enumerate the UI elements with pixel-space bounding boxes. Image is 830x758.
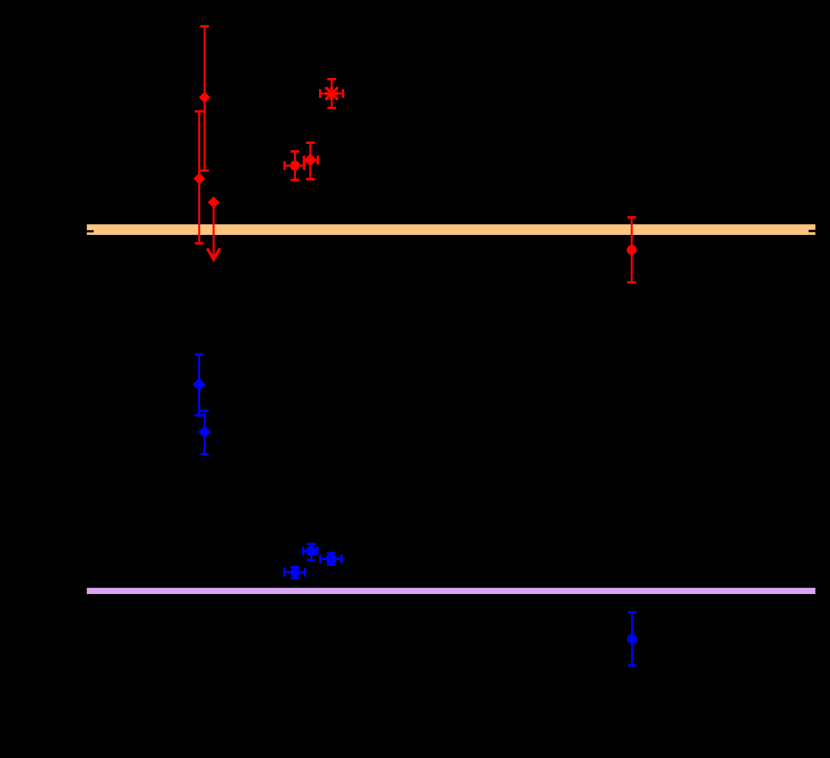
blue cluster circle point left errorbars — [284, 567, 305, 578]
blue right circle point errorbar — [628, 612, 637, 665]
red diamond marker of pair — [304, 154, 317, 167]
blue cluster circle marker left — [290, 568, 300, 578]
red upper-limit arrow — [207, 202, 220, 259]
blue cluster circle marker top — [306, 546, 316, 556]
red errorbar B vertical line — [195, 111, 204, 243]
blue right circle marker — [627, 634, 637, 644]
red right circle marker — [627, 245, 637, 255]
blue cluster circle marker right — [326, 554, 337, 565]
red diamond marker A — [199, 92, 211, 104]
blue errorbar diamond 2 — [200, 411, 209, 454]
red diamond marker upper-limit — [208, 196, 220, 208]
red right circle point errorbar — [627, 217, 636, 282]
orange band — [87, 224, 816, 235]
blue diamond marker 1 — [193, 378, 206, 391]
red star point errorbars — [320, 79, 343, 108]
blue cluster circle point right errorbars — [320, 553, 341, 565]
red diamond marker B — [193, 173, 205, 185]
black dash right end of orange band — [809, 230, 817, 232]
red circle marker — [290, 161, 300, 171]
blue errorbar diamond 1 — [195, 355, 204, 416]
black dash left end of orange band — [86, 230, 93, 232]
blue diamond marker 2 — [198, 426, 211, 439]
red star marker — [325, 87, 338, 100]
blue cluster circle point top errorbars — [303, 544, 317, 560]
red circle point (left of pair) errorbars — [285, 151, 305, 179]
red diamond point (right of pair) errorbars — [304, 143, 318, 180]
red errorbar A vertical line — [200, 26, 209, 170]
purple band — [87, 588, 816, 594]
